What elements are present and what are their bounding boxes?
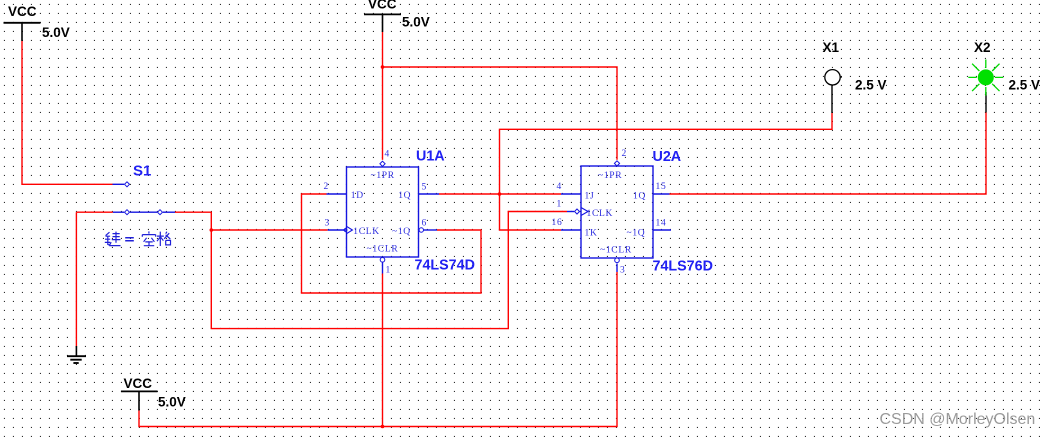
svg-text:~1Q: ~1Q xyxy=(627,228,646,238)
wire VCC2 down to U1A preset pin xyxy=(382,32,384,160)
svg-text:2: 2 xyxy=(622,149,627,159)
svg-text:~1CLR: ~1CLR xyxy=(600,245,632,255)
clock triangle xyxy=(581,208,588,216)
wire VCC2 branch to U2A preset pin xyxy=(383,67,618,160)
svg-text:2.5 V: 2.5 V xyxy=(855,78,887,93)
junction on bottom rail xyxy=(381,425,385,429)
pin stubs xyxy=(561,193,581,195)
op-amp U1A (74LS74D flip-flop) xyxy=(324,149,475,276)
wire ground branch from S1 row xyxy=(76,211,112,213)
wire U1A ~1CLR down to rail xyxy=(382,274,384,427)
svg-text:3: 3 xyxy=(620,266,625,276)
svg-text:1Q: 1Q xyxy=(398,191,411,201)
svg-text:6: 6 xyxy=(422,219,427,229)
svg-text:3: 3 xyxy=(325,219,330,229)
switch S1 xyxy=(113,163,176,215)
svg-text:X1: X1 xyxy=(823,40,840,55)
svg-text:~1PR: ~1PR xyxy=(371,171,395,181)
svg-text:~1Q: ~1Q xyxy=(392,227,411,237)
svg-text:1: 1 xyxy=(557,200,562,210)
svg-text:74LS74D: 74LS74D xyxy=(415,258,475,274)
wire U2A 1Q to X2 xyxy=(670,113,987,195)
svg-text:X2: X2 xyxy=(974,40,991,55)
svg-text:VCC: VCC xyxy=(8,4,37,19)
wire branch up to X1 xyxy=(500,113,833,194)
svg-text:15: 15 xyxy=(656,182,667,192)
op-amp U2A (74LS76D flip-flop) xyxy=(552,149,713,276)
svg-text:1CLK: 1CLK xyxy=(353,227,380,237)
probe X1 xyxy=(823,40,887,113)
svg-text:1: 1 xyxy=(386,266,391,276)
wire VCC1 to S1 top terminal xyxy=(22,41,113,184)
svg-text:1CLK: 1CLK xyxy=(587,209,614,219)
svg-text:5.0V: 5.0V xyxy=(158,395,186,410)
svg-text:S1: S1 xyxy=(133,163,151,180)
svg-text:16: 16 xyxy=(552,218,563,228)
label key = space (CJK approximation) xyxy=(105,231,171,246)
wire branch to U1A CLK xyxy=(211,229,327,231)
svg-text:5: 5 xyxy=(422,183,427,193)
svg-text:5.0V: 5.0V xyxy=(42,25,70,40)
svg-text:VCC: VCC xyxy=(368,0,397,11)
svg-text:1J: 1J xyxy=(585,192,595,202)
pin 4 bubble ~1PR xyxy=(380,161,385,166)
wire bottom VCC rail to clear pins xyxy=(139,272,617,427)
svg-text:1Q: 1Q xyxy=(633,192,646,202)
power VCC2 (top-center) xyxy=(364,0,430,32)
svg-text:74LS76D: 74LS76D xyxy=(653,259,713,275)
svg-text:~1PR: ~1PR xyxy=(598,171,622,181)
junction at S1 column and U1A CLK row xyxy=(210,228,214,232)
lamp X2 xyxy=(968,40,1040,113)
junction on VCC2 column xyxy=(381,65,385,69)
wire S1 right to clock column xyxy=(175,212,567,329)
svg-text:5.0V: 5.0V xyxy=(402,15,430,30)
svg-text:4: 4 xyxy=(557,182,562,192)
clock pin diamond xyxy=(575,209,580,214)
wire U1A 1Q to U2A 1J xyxy=(439,193,561,195)
pin 2 bubble ~1PR xyxy=(614,161,619,166)
svg-text:VCC: VCC xyxy=(124,376,153,391)
svg-text:U2A: U2A xyxy=(653,149,682,165)
pin 6 bubble xyxy=(419,228,423,232)
svg-text:CSDN @MorleyOlsen: CSDN @MorleyOlsen xyxy=(880,411,1036,428)
svg-text:14: 14 xyxy=(656,219,667,229)
svg-text:2: 2 xyxy=(324,182,329,192)
svg-text:U1A: U1A xyxy=(416,149,445,165)
svg-text:4: 4 xyxy=(385,150,390,160)
pin 3 bubble ~1CLR xyxy=(615,258,620,263)
clock triangle xyxy=(347,226,353,233)
wire branch down to U2A 1K xyxy=(500,194,562,230)
power VCC3 (bottom) xyxy=(121,376,186,411)
svg-text:~1CLR: ~1CLR xyxy=(367,244,399,254)
svg-text:2.5 V: 2.5 V xyxy=(1009,78,1041,93)
pin stubs xyxy=(327,193,347,195)
junction X1 node xyxy=(498,192,502,196)
ground xyxy=(67,346,86,363)
svg-text:1D: 1D xyxy=(351,191,364,201)
power VCC1 (top-left) xyxy=(4,4,70,41)
svg-text:1K: 1K xyxy=(585,228,598,238)
pin 1 bubble ~1CLR xyxy=(380,258,385,263)
wire U1A ~1Q feedback loop to 1D xyxy=(302,194,482,293)
